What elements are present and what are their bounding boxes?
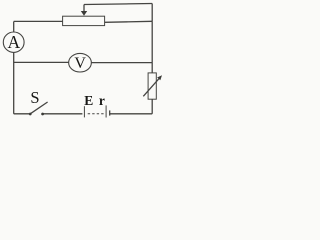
voltmeter V bbox=[69, 53, 92, 72]
variable resistor R' body (right) bbox=[148, 73, 156, 99]
battery negative short plate bbox=[109, 110, 111, 115]
svg-text:V: V bbox=[74, 55, 86, 72]
wire slider stem bbox=[83, 5, 85, 12]
wire voltmeter right lead bbox=[91, 62, 152, 64]
switch contact right bbox=[41, 113, 44, 116]
svg-text:r: r bbox=[99, 93, 105, 108]
arrow of variable resistor bbox=[143, 79, 158, 96]
resistor R (top sliding rheostat body) bbox=[63, 16, 105, 25]
wire top rail right segment bbox=[105, 21, 153, 22]
node junction of top rail and right rail bbox=[151, 22, 153, 63]
wire top rail left segment bbox=[14, 20, 63, 22]
battery positive long plate (right cell) bbox=[105, 105, 107, 117]
switch contact left bbox=[29, 113, 32, 116]
svg-text:A: A bbox=[7, 32, 20, 52]
ammeter A bbox=[3, 32, 24, 52]
wire bottom rail left segment bbox=[14, 113, 31, 115]
svg-text:S: S bbox=[30, 88, 39, 107]
wire bottom rail right segment bbox=[110, 113, 153, 115]
switch S blade bbox=[31, 102, 48, 113]
wire right rail lower (below variable resistor) bbox=[151, 99, 153, 114]
wire voltmeter left lead bbox=[14, 61, 69, 63]
svg-text:E: E bbox=[84, 93, 93, 108]
battery omitted cells dashed link bbox=[87, 113, 104, 115]
wire slider tap horizontal bbox=[84, 4, 152, 5]
battery long plate (left) bbox=[83, 106, 85, 117]
wire right rail middle (down to variable resistor) bbox=[151, 63, 153, 73]
wire right rail upper (tap corner down to top rail junction) bbox=[151, 4, 153, 22]
wire left rail below ammeter bbox=[13, 52, 15, 114]
wire left rail top bbox=[13, 22, 15, 33]
arrowhead of rheostat slider (points down into box) bbox=[81, 11, 87, 16]
wire battery to switch bbox=[43, 113, 83, 115]
